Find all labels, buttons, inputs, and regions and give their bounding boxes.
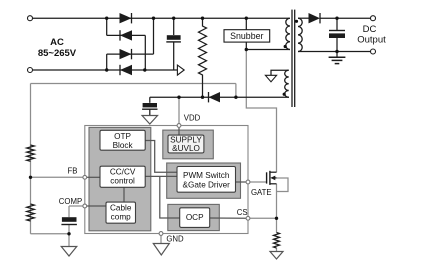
svg-text:CS: CS xyxy=(237,208,248,217)
svg-text:GATE: GATE xyxy=(251,188,272,197)
svg-text:Output: Output xyxy=(357,35,386,46)
svg-text:FB: FB xyxy=(68,166,78,175)
svg-text:DC: DC xyxy=(363,24,377,35)
svg-text:Block: Block xyxy=(113,141,134,150)
svg-text:control: control xyxy=(110,177,135,186)
svg-text:85~265V: 85~265V xyxy=(38,48,77,59)
svg-text:VDD: VDD xyxy=(184,114,201,123)
svg-text:PWM Switch: PWM Switch xyxy=(183,171,230,180)
svg-text:GND: GND xyxy=(166,235,184,244)
svg-text:OTP: OTP xyxy=(114,132,131,141)
svg-text:CC/CV: CC/CV xyxy=(110,168,136,177)
svg-text:comp: comp xyxy=(111,213,131,222)
svg-text:COMP: COMP xyxy=(59,197,82,206)
svg-text:OCP: OCP xyxy=(186,213,204,222)
svg-text:Cable: Cable xyxy=(110,204,132,213)
svg-text:AC: AC xyxy=(50,37,64,48)
svg-text:&UVLO: &UVLO xyxy=(172,144,200,153)
svg-text:Snubber: Snubber xyxy=(230,31,263,41)
svg-text:&Gate Driver: &Gate Driver xyxy=(183,181,231,190)
